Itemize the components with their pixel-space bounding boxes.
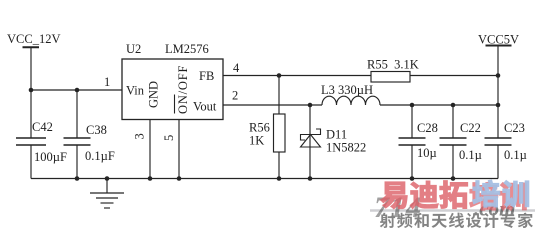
capacitor C42 (16, 90, 67, 179)
wire VCC_12V stub (30, 47, 32, 90)
wire Vout line (223, 104, 322, 106)
svg-text:C38: C38 (86, 123, 107, 137)
svg-text:VCC5V: VCC5V (478, 33, 519, 47)
node FB junction VCC5V (496, 73, 501, 78)
svg-text:U2: U2 (126, 42, 141, 56)
svg-text:L3 330µH: L3 330µH (321, 83, 373, 97)
wire bottom ground bus (31, 178, 498, 180)
svg-text:GND: GND (147, 81, 161, 108)
node output junction VCC5V (496, 103, 501, 108)
wire pin 3 GND lead (149, 120, 151, 179)
power VCC_12V (7, 32, 60, 47)
svg-text:FB: FB (199, 69, 214, 83)
svg-text:0.1µ: 0.1µ (504, 148, 527, 162)
watermark logo red shadow 培训 (470, 182, 526, 210)
resistor R55 (367, 58, 419, 83)
svg-text:R55 3.1K: R55 3.1K (367, 58, 419, 72)
node output junction C22 (451, 103, 456, 108)
svg-text:100µF: 100µF (34, 150, 67, 164)
svg-text:2: 2 (232, 89, 238, 103)
node output junction C28 (410, 103, 415, 108)
svg-text:C42: C42 (32, 120, 53, 134)
node bus junction pin3 (148, 176, 153, 181)
wire pin 5 ON/OFF lead (178, 120, 180, 179)
watermark logo red text 易迪拓 (381, 181, 468, 209)
node bus junction R56 (277, 176, 282, 181)
resistor R56 (249, 76, 285, 179)
watermark logo gray underline (370, 209, 535, 211)
svg-text:Vin: Vin (126, 84, 145, 98)
node bus junction C22 (451, 176, 456, 181)
capacitor C22 (440, 105, 482, 179)
svg-text:ON/OFF: ON/OFF (176, 65, 190, 114)
node input junction C38 (75, 88, 80, 93)
node bus junction D11 (308, 176, 313, 181)
svg-text:LM2576: LM2576 (165, 42, 209, 56)
svg-text:1: 1 (104, 75, 110, 89)
svg-text:1K: 1K (249, 134, 264, 148)
capacitor C38 (64, 90, 115, 179)
node bus junction C38 (75, 176, 80, 181)
capacitor C28 (399, 105, 438, 179)
svg-text:1N5822: 1N5822 (326, 141, 366, 155)
svg-text:Vout: Vout (193, 100, 217, 114)
svg-text:C23: C23 (504, 121, 525, 135)
diode D11 1N5822 (301, 105, 367, 179)
wire input bus (31, 89, 122, 91)
wire FB line left (223, 75, 371, 77)
ground (90, 179, 124, 209)
regulator U2 LM2576 (122, 42, 223, 120)
wire FB line right (410, 75, 498, 77)
svg-text:C22: C22 (460, 121, 481, 135)
wire output line (380, 104, 498, 106)
node bus junction ground (105, 176, 110, 181)
svg-text:D11: D11 (326, 128, 347, 142)
node Vout junction D11 (308, 103, 313, 108)
node bus junction C28 (410, 176, 415, 181)
inductor L3 (321, 83, 380, 105)
svg-text:0.1µ: 0.1µ (459, 148, 482, 162)
power VCC5V (478, 33, 519, 47)
svg-text:0.1µF: 0.1µF (85, 149, 115, 163)
watermark logo gray subtitle 射频和天线设计专家 (380, 213, 533, 228)
svg-text:C28: C28 (417, 121, 438, 135)
node input junction C42 (29, 88, 34, 93)
svg-text:3: 3 (133, 133, 147, 139)
svg-text:R56: R56 (249, 121, 270, 135)
capacitor C23 (485, 121, 527, 179)
svg-text:10µ: 10µ (417, 146, 437, 160)
svg-text:VCC_12V: VCC_12V (7, 32, 60, 46)
svg-text:4: 4 (233, 61, 240, 75)
svg-text:5: 5 (162, 135, 176, 141)
watermark logo blue text 培训 (473, 180, 529, 207)
wire VCC5V vertical (497, 46, 499, 139)
node FB junction R56 (277, 73, 282, 78)
node bus junction pin5 (177, 176, 182, 181)
